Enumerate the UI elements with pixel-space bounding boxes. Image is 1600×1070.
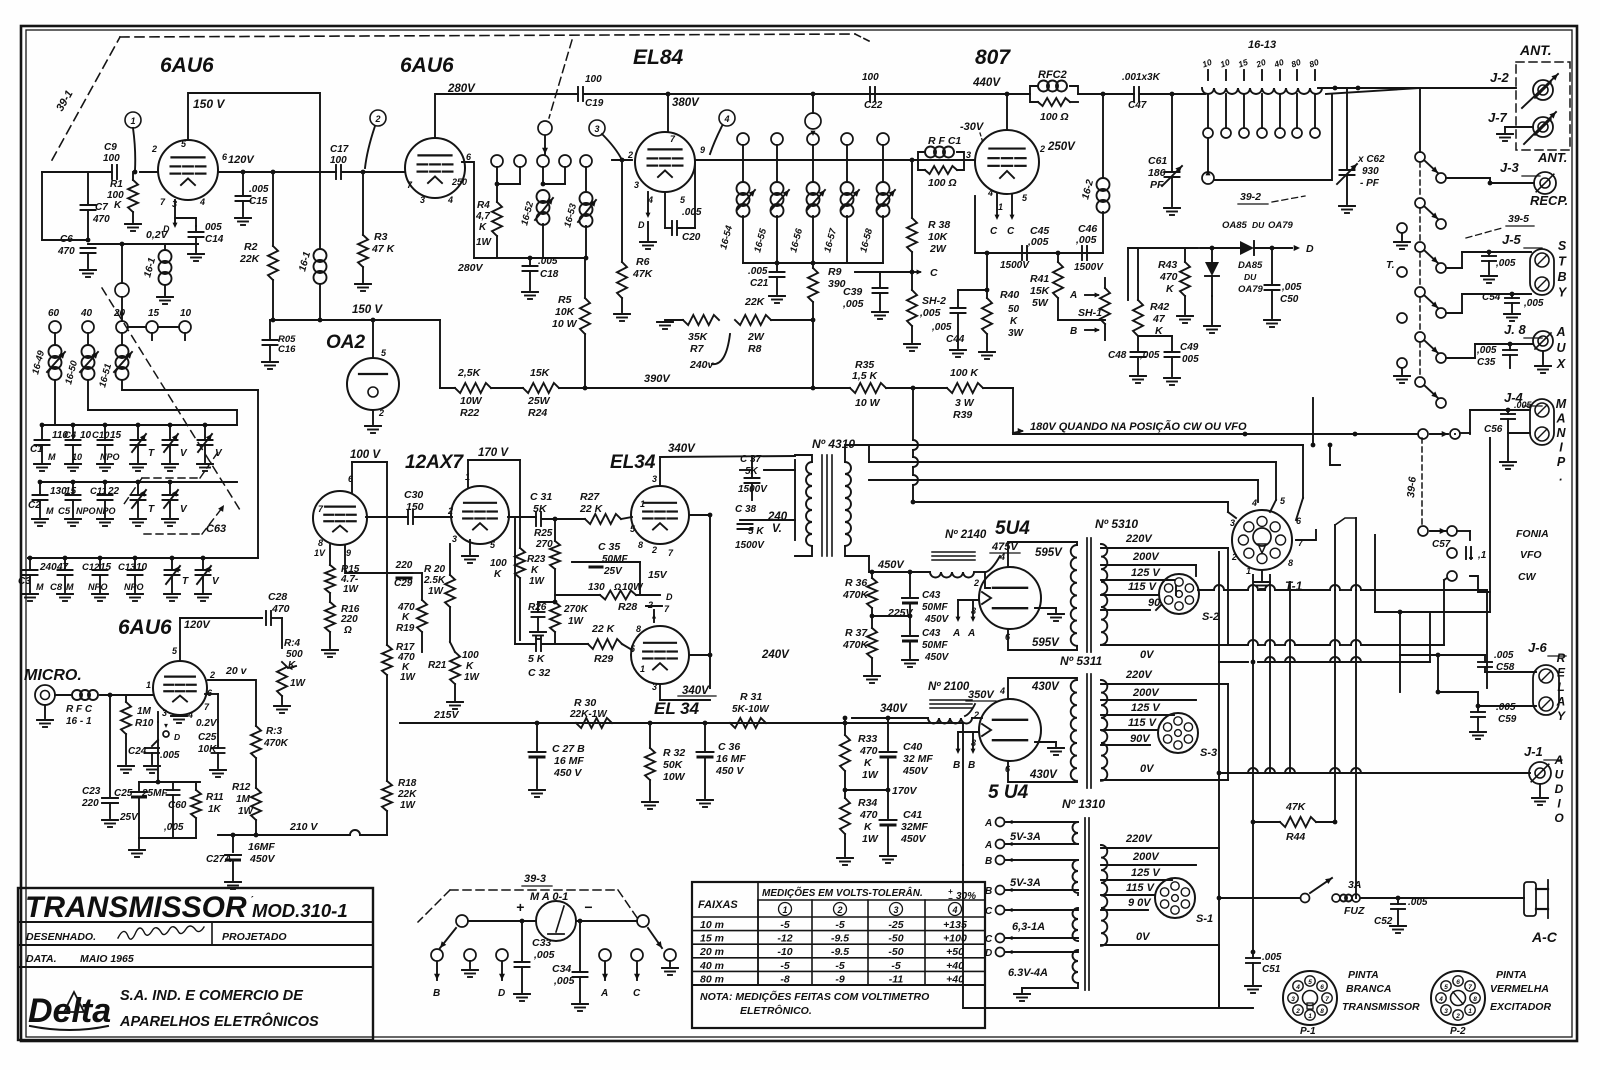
svg-text:+100: +100	[943, 933, 967, 945]
svg-text:450V: 450V	[902, 765, 929, 777]
svg-text:B: B	[1070, 326, 1077, 337]
svg-text:+50: +50	[946, 946, 964, 958]
svg-text:1500V: 1500V	[738, 484, 768, 495]
svg-text:470: 470	[271, 603, 290, 615]
svg-text:1W: 1W	[238, 806, 255, 817]
svg-text:C17: C17	[330, 144, 349, 155]
svg-text:.005: .005	[160, 750, 180, 761]
svg-text:C: C	[930, 267, 938, 279]
svg-text:3: 3	[893, 905, 898, 915]
svg-text:10K: 10K	[555, 306, 576, 318]
svg-text:10W: 10W	[663, 771, 686, 783]
svg-text:R21: R21	[428, 660, 447, 671]
svg-text:1W: 1W	[400, 672, 417, 683]
svg-text:+: +	[516, 899, 524, 915]
svg-text:3: 3	[652, 682, 657, 692]
svg-text:807: 807	[975, 46, 1011, 69]
svg-text:1W: 1W	[529, 576, 546, 587]
svg-text:9: 9	[346, 548, 351, 558]
svg-text:,005: ,005	[931, 322, 952, 333]
svg-text:-5: -5	[835, 960, 844, 972]
svg-text:RECP.: RECP.	[1530, 193, 1568, 208]
svg-text:C: C	[633, 988, 641, 999]
svg-text:5: 5	[1308, 979, 1312, 986]
svg-text:115 V: 115 V	[1128, 581, 1158, 593]
svg-text:1W: 1W	[290, 678, 307, 689]
svg-text:1W: 1W	[400, 800, 417, 811]
svg-text:R1: R1	[110, 179, 123, 190]
svg-text:C34: C34	[552, 963, 571, 975]
svg-text:40: 40	[80, 308, 93, 319]
svg-text:2: 2	[973, 578, 979, 588]
svg-text:APARELHOS ELETRÔNICOS: APARELHOS ELETRÔNICOS	[119, 1012, 319, 1030]
svg-text:3: 3	[162, 708, 167, 718]
svg-text:10K: 10K	[928, 231, 949, 243]
svg-text:C 38: C 38	[735, 504, 757, 515]
svg-text:-50: -50	[888, 946, 903, 958]
svg-text:R29: R29	[594, 653, 613, 665]
svg-text:D: D	[174, 732, 180, 742]
svg-text:130: 130	[588, 582, 605, 593]
svg-text:125 V: 125 V	[1131, 702, 1161, 714]
svg-text:C25: C25	[198, 732, 217, 743]
svg-text:TRANSMISSOR: TRANSMISSOR	[25, 891, 247, 924]
svg-text:3: 3	[594, 124, 599, 134]
svg-text:BRANCA: BRANCA	[1346, 983, 1392, 995]
svg-text:-11: -11	[889, 973, 904, 985]
svg-text:1: 1	[130, 116, 135, 126]
svg-text:10W: 10W	[460, 395, 483, 407]
svg-text:470: 470	[1159, 271, 1178, 283]
svg-text:100 K: 100 K	[950, 367, 979, 379]
svg-text:.: .	[1559, 470, 1562, 484]
svg-text:P-2: P-2	[1450, 1026, 1466, 1037]
svg-text:125 V: 125 V	[1131, 867, 1161, 879]
svg-text:220: 220	[81, 798, 99, 809]
svg-text:J-3: J-3	[1500, 160, 1520, 175]
svg-text:25W: 25W	[527, 395, 551, 407]
svg-text:A: A	[1555, 325, 1565, 339]
svg-text:NPO: NPO	[124, 582, 144, 592]
svg-text:DU: DU	[1252, 220, 1265, 230]
svg-text:A: A	[1556, 695, 1566, 709]
svg-text:5 U4: 5 U4	[988, 782, 1029, 803]
svg-text:100: 100	[462, 650, 479, 661]
svg-text:R:3: R:3	[266, 726, 283, 737]
svg-text:,1: ,1	[1477, 550, 1487, 561]
svg-text:TRANSMISSOR: TRANSMISSOR	[1342, 1001, 1420, 1013]
svg-text:40 m: 40 m	[699, 960, 724, 972]
svg-text:PROJETADO: PROJETADO	[222, 931, 287, 943]
svg-text:NPO: NPO	[100, 452, 120, 462]
svg-text:R11: R11	[206, 792, 224, 803]
svg-text:15: 15	[110, 430, 122, 441]
svg-text:8: 8	[318, 538, 323, 548]
svg-text:PF: PF	[1150, 179, 1164, 191]
svg-text:.005: .005	[1496, 702, 1516, 713]
svg-text:10: 10	[136, 562, 148, 573]
svg-text:1500V: 1500V	[1074, 262, 1104, 273]
svg-text:200V: 200V	[1132, 551, 1160, 563]
svg-text:470: 470	[859, 745, 878, 757]
svg-text:47K: 47K	[1285, 801, 1307, 813]
svg-text:2: 2	[627, 150, 633, 160]
svg-text:7: 7	[1325, 996, 1329, 1003]
svg-text:4: 4	[447, 195, 453, 205]
svg-text:12AX7: 12AX7	[405, 452, 465, 473]
svg-text:C44: C44	[946, 334, 965, 345]
svg-text:4: 4	[951, 905, 957, 915]
svg-text:C33: C33	[532, 937, 551, 949]
svg-text:1W: 1W	[464, 672, 481, 683]
svg-text:150: 150	[406, 501, 424, 513]
svg-text:C7: C7	[95, 202, 108, 213]
svg-text:5K: 5K	[533, 503, 548, 515]
svg-text:3: 3	[1444, 1008, 1448, 1015]
svg-text:20 v: 20 v	[225, 665, 248, 677]
svg-text:-5: -5	[835, 919, 844, 931]
svg-text:S.A. IND. E COMERCIO DE: S.A. IND. E COMERCIO DE	[120, 988, 304, 1004]
svg-text:FONIA: FONIA	[1516, 528, 1549, 540]
svg-text:ELETRÔNICO.: ELETRÔNICO.	[740, 1004, 812, 1017]
svg-text:450 V: 450 V	[715, 765, 744, 777]
svg-text:100 Ω: 100 Ω	[1040, 111, 1069, 123]
svg-text:240: 240	[39, 562, 57, 573]
svg-text:C10: C10	[92, 430, 110, 441]
svg-text:M: M	[46, 506, 54, 516]
svg-text:-5: -5	[780, 919, 789, 931]
svg-text:.005: .005	[249, 184, 269, 195]
svg-text:47 K: 47 K	[371, 243, 396, 255]
svg-text:C13: C13	[118, 562, 136, 573]
svg-text:SH-1: SH-1	[1078, 307, 1102, 319]
svg-text:90V: 90V	[1130, 733, 1151, 745]
svg-text:2W: 2W	[747, 331, 765, 343]
svg-text:32 MF: 32 MF	[903, 753, 933, 765]
svg-text:450V: 450V	[900, 833, 927, 845]
svg-text:R4: R4	[477, 200, 490, 211]
svg-text:C21: C21	[750, 278, 769, 289]
svg-text:O: O	[1554, 811, 1564, 825]
svg-text:C63: C63	[206, 523, 226, 535]
svg-text:,005: ,005	[1139, 350, 1160, 361]
svg-text:.005: .005	[748, 266, 768, 277]
svg-text:A: A	[1069, 290, 1077, 301]
svg-text:595V: 595V	[1035, 547, 1063, 559]
svg-text:440V: 440V	[972, 77, 1001, 89]
svg-text:R12: R12	[232, 782, 251, 793]
svg-text:15K: 15K	[530, 367, 551, 379]
svg-text:MOD.310-1: MOD.310-1	[252, 900, 348, 921]
svg-text:C61: C61	[1148, 155, 1167, 167]
svg-text:2: 2	[209, 670, 215, 680]
svg-text:I: I	[1559, 441, 1563, 455]
svg-text:-5: -5	[780, 960, 789, 972]
svg-text:.005: .005	[1494, 650, 1514, 661]
svg-text:DA85: DA85	[1238, 260, 1263, 271]
svg-text:A: A	[967, 628, 975, 639]
svg-text:T.: T.	[1386, 259, 1395, 271]
svg-text:C57: C57	[1432, 539, 1451, 550]
svg-text:1500V: 1500V	[735, 540, 765, 551]
svg-text:1W: 1W	[568, 616, 585, 627]
svg-text:22K: 22K	[239, 253, 261, 265]
svg-text:DU: DU	[1244, 272, 1257, 282]
svg-text:R2: R2	[244, 241, 258, 253]
svg-text:B: B	[985, 856, 992, 867]
svg-text:4: 4	[199, 197, 205, 207]
svg-text:50MF: 50MF	[602, 554, 628, 565]
svg-text:5 K: 5 K	[528, 653, 546, 665]
svg-text:C 36: C 36	[718, 741, 740, 753]
svg-text:3: 3	[420, 195, 425, 205]
svg-text:-30V: -30V	[960, 121, 985, 133]
svg-text:005: 005	[205, 222, 222, 233]
svg-text:1: 1	[782, 905, 787, 915]
svg-text:450V: 450V	[924, 652, 950, 663]
svg-text:-9: -9	[835, 973, 844, 985]
svg-text:8: 8	[636, 624, 641, 634]
svg-text:EXCITADOR: EXCITADOR	[1490, 1001, 1551, 1013]
svg-text:C43: C43	[922, 628, 941, 639]
svg-text:9 0V: 9 0V	[1128, 897, 1152, 909]
svg-text:240v: 240v	[689, 359, 715, 371]
svg-text:OA79: OA79	[1268, 220, 1294, 231]
svg-text:10: 10	[180, 308, 192, 319]
svg-text:186: 186	[1148, 167, 1166, 179]
svg-text:22K: 22K	[744, 296, 766, 308]
svg-text:470K: 470K	[842, 639, 870, 651]
svg-text:R39: R39	[953, 409, 972, 421]
svg-text:PINTA: PINTA	[1348, 969, 1379, 981]
svg-text:25V: 25V	[603, 566, 623, 577]
svg-text:15K: 15K	[1030, 285, 1051, 297]
svg-text:115 V: 115 V	[1128, 717, 1158, 729]
svg-text:D: D	[638, 220, 645, 230]
svg-text:−: −	[584, 899, 592, 915]
svg-text:6AU6: 6AU6	[400, 54, 454, 77]
svg-text:4: 4	[1438, 996, 1443, 1003]
svg-text:1: 1	[1308, 1013, 1312, 1020]
svg-text:C 27 B: C 27 B	[552, 743, 585, 755]
svg-text:J-1: J-1	[1524, 744, 1543, 759]
svg-text:P: P	[1557, 455, 1566, 469]
svg-text:,005: ,005	[1075, 234, 1097, 246]
svg-text:A: A	[1555, 412, 1565, 426]
svg-text:E: E	[1557, 666, 1566, 680]
svg-text:C11: C11	[90, 486, 107, 497]
svg-text:4: 4	[187, 710, 193, 720]
svg-text:10 m: 10 m	[700, 919, 724, 931]
svg-text:3: 3	[966, 150, 971, 160]
svg-text:K: K	[479, 222, 487, 233]
svg-text:A: A	[952, 628, 960, 639]
svg-text:R40: R40	[1000, 289, 1019, 301]
svg-text:R24: R24	[528, 407, 547, 419]
svg-text:2: 2	[151, 144, 157, 154]
svg-text:R5: R5	[558, 294, 572, 306]
svg-text:0V: 0V	[1140, 763, 1155, 775]
svg-text:C3: C3	[18, 576, 31, 587]
svg-text:R19: R19	[396, 623, 415, 634]
svg-text:1: 1	[640, 664, 645, 674]
svg-text:,005: ,005	[533, 949, 555, 961]
svg-text:R44: R44	[1286, 831, 1305, 843]
svg-text:20 m: 20 m	[699, 946, 724, 958]
svg-text:.005: .005	[1262, 952, 1282, 963]
svg-text:B: B	[433, 988, 440, 999]
svg-text:DATA.: DATA.	[26, 953, 57, 965]
svg-text:R 37: R 37	[845, 627, 868, 639]
svg-text:C30: C30	[404, 489, 423, 501]
svg-text:240: 240	[767, 511, 788, 523]
svg-text:3A: 3A	[1348, 879, 1361, 891]
svg-text:OA2: OA2	[326, 332, 366, 353]
svg-text:R 36: R 36	[845, 577, 867, 589]
svg-text:S: S	[1558, 239, 1567, 253]
svg-text:120V: 120V	[228, 154, 255, 166]
svg-text:VFO: VFO	[1520, 549, 1542, 561]
svg-text:C56: C56	[1484, 424, 1503, 435]
svg-text:270K: 270K	[563, 604, 589, 615]
svg-text:50MF: 50MF	[922, 602, 948, 613]
svg-text:-9.5: -9.5	[831, 946, 849, 958]
svg-text:3: 3	[1230, 518, 1235, 528]
svg-text:470K: 470K	[842, 589, 870, 601]
svg-text:C 35: C 35	[598, 541, 620, 553]
svg-text:470: 470	[57, 246, 75, 257]
svg-text:C50: C50	[1280, 294, 1299, 305]
svg-text:NPO: NPO	[96, 506, 116, 516]
svg-text:M: M	[66, 582, 74, 592]
svg-text:6AU6: 6AU6	[118, 616, 172, 639]
svg-text:450 V: 450 V	[553, 767, 582, 779]
svg-text:2: 2	[1295, 1008, 1300, 1015]
svg-text:4: 4	[999, 686, 1005, 696]
svg-text:C41: C41	[903, 809, 922, 821]
svg-text:R 32: R 32	[663, 747, 685, 759]
svg-text:C35: C35	[1477, 357, 1496, 368]
svg-text:1: 1	[640, 499, 645, 509]
svg-text:-50: -50	[888, 933, 903, 945]
svg-text:100: 100	[490, 558, 507, 569]
svg-text:180V QUANDO NA POSIÇÃO CW: 180V QUANDO NA POSIÇÃO CW OU VFO	[1030, 420, 1247, 433]
svg-text:1M: 1M	[137, 706, 152, 717]
svg-text:170 V: 170 V	[478, 447, 509, 459]
svg-text:3: 3	[452, 534, 457, 544]
svg-text:150 V: 150 V	[193, 97, 225, 111]
svg-text:A: A	[984, 818, 992, 829]
svg-text:L: L	[1557, 680, 1564, 694]
svg-text:47: 47	[56, 562, 69, 573]
svg-text:10: 10	[80, 430, 92, 441]
svg-text:2: 2	[1039, 144, 1045, 154]
svg-text:47: 47	[1152, 313, 1166, 325]
svg-text:16 - 1: 16 - 1	[66, 716, 92, 727]
svg-text:250V: 250V	[1047, 141, 1076, 153]
svg-text:C40: C40	[903, 741, 922, 753]
svg-text:T: T	[148, 504, 155, 515]
svg-text:450V: 450V	[877, 559, 905, 571]
svg-text:D: D	[666, 592, 673, 602]
svg-text:240V: 240V	[761, 649, 790, 661]
svg-text:200V: 200V	[1132, 851, 1160, 863]
svg-text:MICRO.: MICRO.	[24, 667, 82, 684]
svg-text:15V: 15V	[648, 569, 668, 581]
svg-text:220: 220	[395, 560, 413, 571]
svg-text:32MF: 32MF	[901, 821, 928, 833]
svg-text:470: 470	[92, 214, 110, 225]
svg-text:1: 1	[1468, 1008, 1472, 1015]
svg-text:595V: 595V	[1032, 637, 1060, 649]
svg-text:DESENHADO.: DESENHADO.	[26, 931, 96, 943]
svg-text:OA85: OA85	[1222, 220, 1248, 231]
svg-text:15: 15	[100, 562, 112, 573]
svg-text:S-3: S-3	[1200, 747, 1217, 759]
svg-text:Nº 2140: Nº 2140	[945, 529, 987, 541]
svg-text:FUZ: FUZ	[1344, 905, 1365, 917]
svg-text:450V: 450V	[249, 853, 276, 865]
svg-text:C12: C12	[82, 562, 100, 573]
svg-text:N: N	[1556, 426, 1566, 440]
svg-text:R10: R10	[135, 718, 154, 729]
svg-text:R:4: R:4	[284, 638, 301, 649]
svg-text:250: 250	[451, 177, 467, 187]
svg-text:ANT.: ANT.	[1537, 150, 1567, 165]
svg-text:115 V: 115 V	[1126, 882, 1156, 894]
svg-text:6.3V-4A: 6.3V-4A	[1008, 967, 1048, 979]
svg-text:K: K	[1010, 316, 1018, 327]
svg-text:V.: V.	[772, 523, 782, 535]
svg-text:SH-2: SH-2	[922, 295, 946, 307]
svg-text:100 Ω: 100 Ω	[928, 177, 957, 189]
svg-text:22: 22	[107, 486, 120, 497]
svg-text:,005: ,005	[842, 298, 864, 310]
svg-text:25V: 25V	[119, 812, 139, 823]
svg-text:+135: +135	[943, 919, 967, 931]
svg-text:2,5K: 2,5K	[457, 367, 482, 379]
svg-text:C19: C19	[585, 98, 604, 109]
svg-text:120V: 120V	[184, 619, 211, 631]
svg-text:M: M	[1556, 397, 1567, 411]
svg-text:,005: ,005	[1476, 345, 1497, 356]
svg-text:170V: 170V	[892, 785, 918, 797]
svg-text:7: 7	[1468, 984, 1472, 991]
svg-text:C8: C8	[50, 582, 63, 593]
svg-text:x C62: x C62	[1357, 154, 1385, 165]
svg-text:C 31: C 31	[530, 491, 552, 503]
svg-text:S-2: S-2	[1202, 611, 1219, 623]
svg-text:2.5K: 2.5K	[423, 575, 446, 586]
svg-text:10 W: 10 W	[855, 397, 881, 409]
svg-text:C15: C15	[249, 196, 268, 207]
svg-text:C22: C22	[864, 100, 883, 111]
svg-text:,005: ,005	[1523, 298, 1544, 309]
svg-text:1W: 1W	[343, 584, 360, 595]
svg-text:3: 3	[652, 474, 657, 484]
svg-text:Nº 1310: Nº 1310	[1062, 797, 1105, 811]
svg-text:P-1: P-1	[1300, 1026, 1316, 1037]
svg-text:C 32: C 32	[528, 667, 550, 679]
svg-text:1,5 K: 1,5 K	[852, 370, 879, 382]
svg-text:RFC2: RFC2	[1038, 69, 1067, 81]
svg-text:.001x3K: .001x3K	[1122, 72, 1161, 83]
svg-text:S-1: S-1	[1196, 913, 1213, 925]
svg-text:J. 8: J. 8	[1504, 322, 1526, 337]
svg-text:D: D	[498, 988, 505, 999]
svg-text:15: 15	[148, 308, 160, 319]
svg-text:215V: 215V	[433, 709, 460, 721]
